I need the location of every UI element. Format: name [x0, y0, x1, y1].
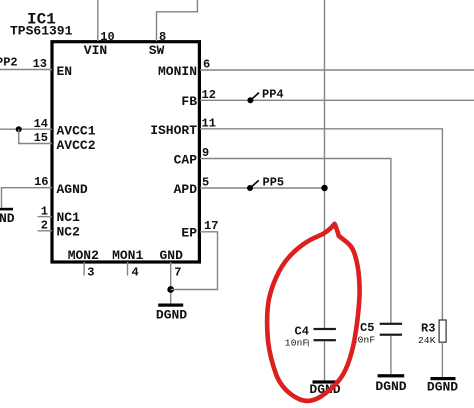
svg-text:7: 7	[174, 265, 181, 279]
svg-text:AVCC2: AVCC2	[57, 138, 96, 153]
ground DGND under C4	[313, 380, 338, 383]
svg-text:13: 13	[33, 57, 47, 71]
wire vertical net to C4	[324, 0, 326, 328]
svg-text:EP: EP	[181, 226, 197, 241]
svg-text:R3: R3	[421, 321, 435, 335]
wire pin14 AVCC1	[0, 128, 52, 130]
svg-text:SW: SW	[149, 43, 165, 58]
svg-text:14: 14	[34, 117, 48, 131]
svg-text:4: 4	[132, 265, 139, 279]
wire pin7 GND	[170, 262, 172, 304]
svg-text:GND: GND	[159, 248, 183, 263]
node PP5	[247, 185, 253, 191]
IC IC1 TPS61391 body	[52, 42, 199, 262]
svg-text:AVCC1: AVCC1	[57, 123, 96, 138]
svg-text:DGND: DGND	[156, 308, 187, 323]
svg-text:2: 2	[41, 219, 48, 233]
svg-text:EN: EN	[57, 64, 73, 79]
svg-text:NC2: NC2	[57, 225, 81, 240]
ground AGND symbol	[0, 208, 13, 211]
wire pin17 EP	[171, 232, 218, 290]
wire pin9 CAP	[200, 159, 391, 324]
svg-text:MON1: MON1	[112, 248, 143, 263]
svg-text:MONIN: MONIN	[158, 64, 197, 79]
node PP4	[247, 97, 253, 103]
svg-text:TPS61391: TPS61391	[10, 24, 73, 39]
ground DGND under R3	[431, 377, 456, 380]
svg-text:PP5: PP5	[263, 175, 285, 189]
wire pin1 NC1 stub	[38, 216, 52, 218]
svg-text:APD: APD	[174, 182, 198, 197]
svg-text:8: 8	[159, 30, 166, 44]
junction pin7/EP	[167, 286, 174, 293]
svg-text:DGND: DGND	[375, 379, 406, 394]
wire pin6 MONIN	[200, 69, 474, 71]
ground DGND under C5	[378, 374, 405, 377]
junction node A	[16, 126, 22, 132]
annotation red circle around C4	[267, 224, 359, 401]
svg-text:DGND: DGND	[427, 379, 458, 394]
wire pin15 AVCC2	[19, 129, 52, 143]
wire pin8 SW	[157, 0, 198, 41]
ground DGND under pin7	[158, 304, 183, 307]
svg-text:VIN: VIN	[84, 43, 107, 58]
wire pin16 AGND	[2, 188, 53, 208]
wire pin3 MON2 stub	[83, 262, 85, 276]
capacitor C5	[380, 323, 402, 325]
resistor R3	[439, 320, 446, 342]
svg-text:PP4: PP4	[262, 88, 284, 102]
svg-text:AGND: AGND	[0, 211, 15, 226]
svg-text:FB: FB	[181, 94, 197, 109]
svg-text:16: 16	[34, 175, 48, 189]
svg-text:ISHORT: ISHORT	[150, 123, 197, 138]
svg-text:5: 5	[202, 176, 209, 190]
capacitor C4	[314, 328, 336, 330]
svg-text:C5: C5	[360, 321, 374, 335]
svg-text:AGND: AGND	[57, 182, 88, 197]
svg-text:C4: C4	[295, 325, 309, 339]
junction APD/C4	[321, 185, 327, 191]
svg-text:3: 3	[87, 265, 94, 279]
svg-text:NC1: NC1	[57, 210, 81, 225]
wire pin10 VIN	[97, 0, 99, 41]
wire pin12 FB	[200, 99, 474, 101]
svg-text:9: 9	[202, 146, 209, 160]
svg-text:24K: 24K	[418, 335, 436, 346]
wire pin13 EN	[0, 69, 52, 71]
svg-text:10nF: 10nF	[285, 338, 309, 349]
wire pin11 ISHORT	[200, 129, 442, 320]
wire pin5 APD	[200, 187, 325, 189]
svg-text:15: 15	[34, 131, 48, 145]
wire pin2 NC2 stub	[38, 230, 52, 232]
svg-text:CAP: CAP	[174, 152, 198, 167]
svg-text:17: 17	[204, 219, 218, 233]
svg-text:11: 11	[202, 117, 216, 131]
svg-text:12: 12	[202, 88, 216, 102]
svg-text:PP2: PP2	[0, 56, 18, 70]
wire pin4 MON1 stub	[127, 262, 129, 276]
svg-text:1: 1	[41, 204, 48, 218]
svg-text:MON2: MON2	[68, 248, 99, 263]
svg-text:6: 6	[203, 58, 210, 72]
svg-text:10: 10	[100, 30, 114, 44]
